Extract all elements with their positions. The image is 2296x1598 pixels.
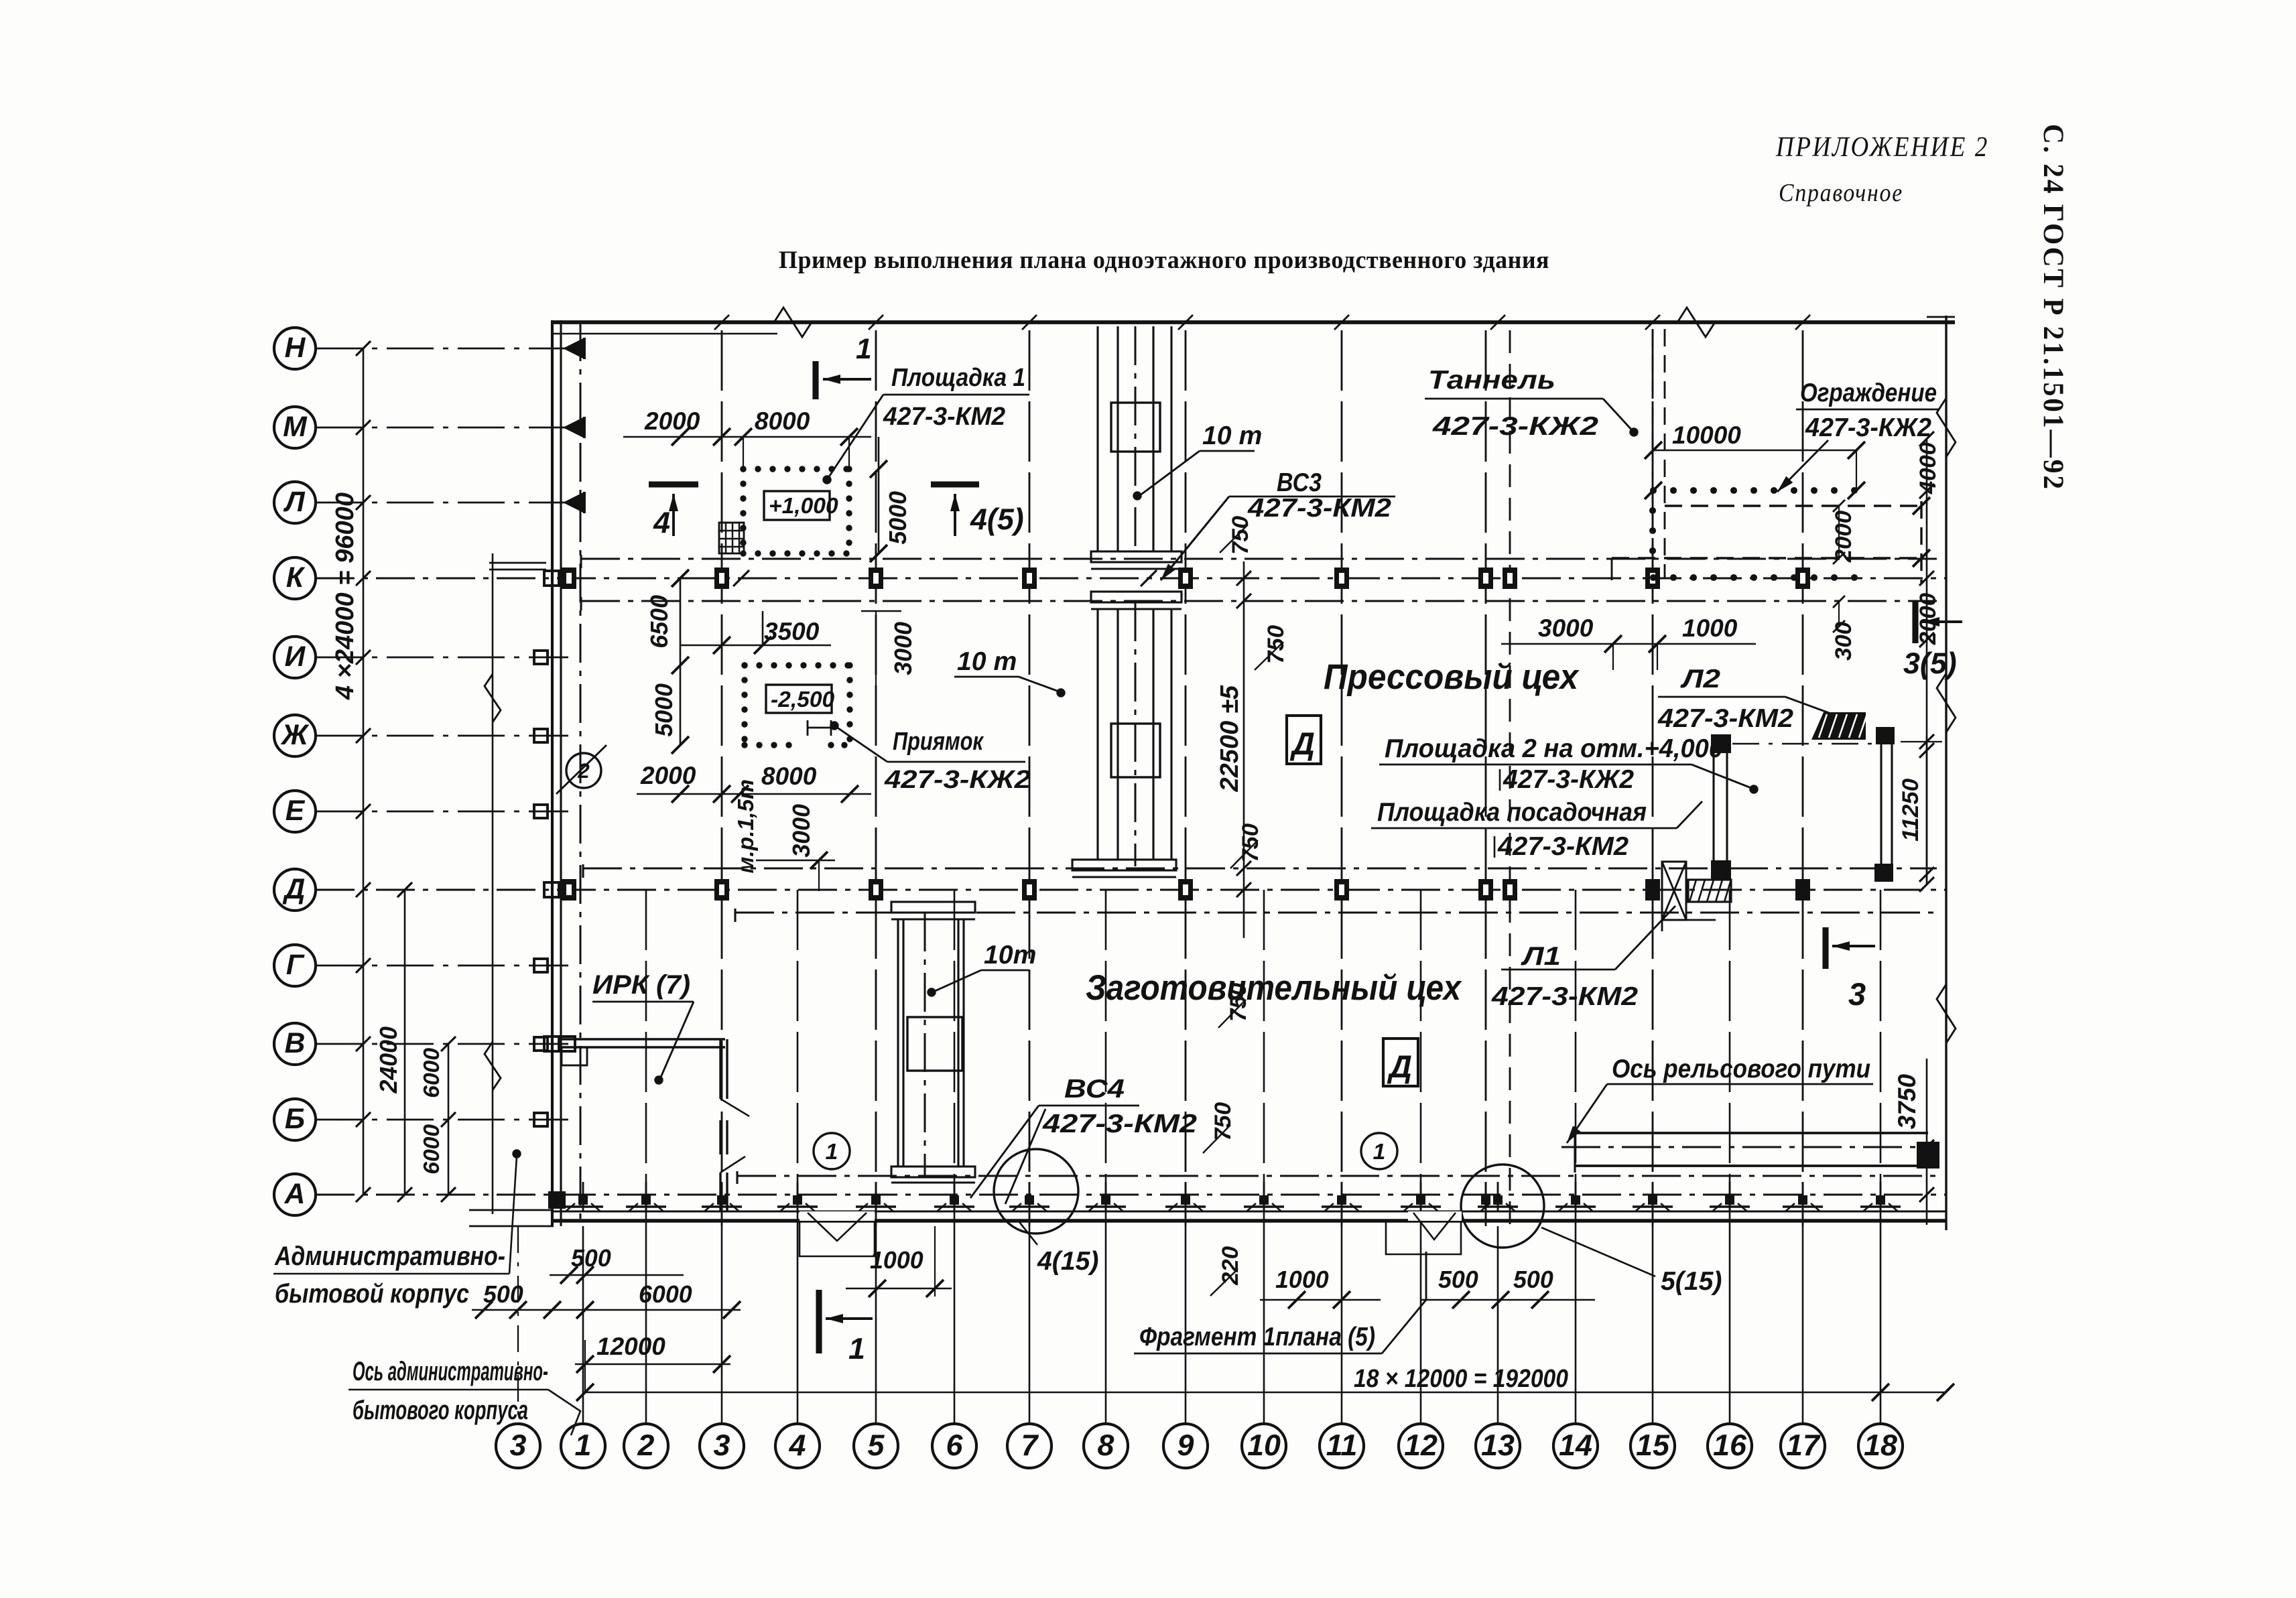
svg-text:6500: 6500 — [646, 595, 673, 649]
svg-text:427-3-КМ2: 427-3-КМ2 — [1247, 494, 1391, 523]
svg-text:Пример выполнения плана одноэт: Пример выполнения плана одноэтажного про… — [779, 247, 1549, 274]
svg-text:Справочное: Справочное — [1779, 179, 1903, 207]
svg-text:Е: Е — [285, 795, 306, 827]
svg-text:ИРК (7): ИРК (7) — [592, 970, 690, 1000]
svg-text:9: 9 — [1177, 1428, 1194, 1462]
svg-text:К: К — [286, 561, 306, 594]
svg-text:1: 1 — [856, 333, 872, 365]
svg-text:ВС3: ВС3 — [1277, 468, 1322, 497]
svg-text:1000: 1000 — [1682, 614, 1738, 642]
svg-text:3500: 3500 — [764, 618, 820, 645]
svg-text:4000: 4000 — [1915, 442, 1941, 494]
svg-text:10: 10 — [1247, 1428, 1281, 1462]
svg-text:А: А — [284, 1178, 306, 1210]
svg-text:12: 12 — [1404, 1428, 1438, 1462]
svg-text:427-3-КМ2: 427-3-КМ2 — [1497, 832, 1629, 861]
svg-text:8000: 8000 — [755, 407, 810, 435]
svg-text:427-3-КЖ2: 427-3-КЖ2 — [884, 766, 1031, 794]
svg-text:Приямок: Приямок — [893, 728, 984, 756]
svg-text:12000: 12000 — [596, 1333, 665, 1360]
svg-text:427-3-КМ2: 427-3-КМ2 — [1657, 704, 1793, 733]
svg-text:427-3-КМ2: 427-3-КМ2 — [1042, 1110, 1197, 1138]
svg-text:1: 1 — [826, 1140, 838, 1164]
svg-text:3: 3 — [714, 1428, 730, 1462]
svg-text:750: 750 — [1210, 1102, 1236, 1141]
svg-text:427-3-КЖ2: 427-3-КЖ2 — [1805, 413, 1931, 442]
svg-text:Площадка 2 на отм.+4,000: Площадка 2 на отм.+4,000 — [1385, 734, 1723, 763]
svg-text:10т: 10т — [984, 941, 1036, 970]
svg-text:4(5): 4(5) — [970, 503, 1024, 536]
svg-text:5000: 5000 — [885, 491, 911, 545]
svg-text:8000: 8000 — [761, 762, 817, 790]
svg-text:Г: Г — [286, 949, 305, 981]
svg-text:м.р.1,5т: м.р.1,5т — [734, 779, 759, 874]
svg-text:6000: 6000 — [639, 1281, 692, 1308]
svg-text:Площадка посадочная: Площадка посадочная — [1377, 798, 1647, 827]
svg-text:Административно-: Административно- — [274, 1241, 505, 1271]
svg-text:10 т: 10 т — [957, 647, 1017, 676]
svg-text:ПРИЛОЖЕНИЕ 2: ПРИЛОЖЕНИЕ 2 — [1775, 132, 1989, 163]
svg-text:Д: Д — [282, 873, 306, 905]
svg-text:3(5): 3(5) — [1903, 647, 1957, 680]
svg-text:Таннель: Таннель — [1428, 366, 1555, 395]
svg-text:3: 3 — [1848, 976, 1866, 1012]
svg-text:Площадка 1: Площадка 1 — [891, 364, 1025, 392]
svg-text:2: 2 — [637, 1428, 655, 1462]
svg-text:Заготовительный цех: Заготовительный цех — [1086, 968, 1462, 1008]
svg-text:Б: Б — [285, 1103, 305, 1135]
svg-text:24000: 24000 — [375, 1026, 402, 1094]
svg-text:3000: 3000 — [890, 622, 917, 675]
svg-text:22500 ±5: 22500 ±5 — [1216, 685, 1244, 792]
svg-text:ВС4: ВС4 — [1064, 1075, 1125, 1104]
svg-text:Д: Д — [1289, 726, 1315, 761]
svg-text:14: 14 — [1559, 1428, 1592, 1462]
svg-text:Ограждение: Ограждение — [1800, 379, 1937, 407]
svg-text:13: 13 — [1481, 1428, 1515, 1462]
svg-text:5000: 5000 — [651, 683, 678, 737]
svg-text:2000: 2000 — [644, 407, 700, 435]
svg-text:500: 500 — [1513, 1266, 1553, 1293]
svg-text:10000: 10000 — [1672, 421, 1741, 449]
svg-text:11: 11 — [1326, 1428, 1358, 1462]
svg-text:+1,000: +1,000 — [769, 494, 838, 519]
svg-text:3: 3 — [510, 1428, 527, 1462]
svg-text:3750: 3750 — [1893, 1074, 1921, 1130]
svg-text:300: 300 — [1831, 622, 1856, 661]
svg-text:18: 18 — [1864, 1428, 1897, 1462]
svg-text:4(15): 4(15) — [1037, 1247, 1098, 1276]
svg-text:Н: Н — [285, 332, 306, 364]
svg-text:Д: Д — [1387, 1049, 1412, 1084]
svg-text:В: В — [285, 1027, 306, 1059]
svg-text:1000: 1000 — [1275, 1266, 1329, 1293]
svg-text:бытовой корпус: бытовой корпус — [275, 1278, 469, 1309]
svg-text:1: 1 — [1373, 1140, 1386, 1164]
svg-text:6: 6 — [946, 1428, 964, 1462]
svg-text:1: 1 — [848, 1332, 865, 1366]
svg-text:Ось рельсового пути: Ось рельсового пути — [1612, 1055, 1870, 1083]
svg-text:Ж: Ж — [280, 719, 310, 751]
svg-text:Л1: Л1 — [1520, 942, 1561, 971]
svg-text:5(15): 5(15) — [1661, 1267, 1722, 1296]
svg-text:11250: 11250 — [1898, 779, 1923, 842]
svg-text:427-3-КМ2: 427-3-КМ2 — [883, 403, 1005, 431]
svg-text:3000: 3000 — [788, 804, 815, 858]
svg-text:бытового корпуса: бытового корпуса — [353, 1395, 528, 1425]
svg-text:17: 17 — [1786, 1428, 1821, 1462]
svg-text:10 т: 10 т — [1202, 421, 1262, 450]
svg-text:3000: 3000 — [1538, 614, 1594, 642]
svg-text:-2,500: -2,500 — [771, 687, 835, 712]
svg-text:427-3-КЖ2: 427-3-КЖ2 — [1432, 412, 1599, 441]
svg-text:5: 5 — [868, 1428, 885, 1462]
svg-text:7: 7 — [1021, 1428, 1039, 1462]
svg-text:220: 220 — [1218, 1246, 1243, 1286]
svg-text:Фрагмент 1плана (5): Фрагмент 1плана (5) — [1139, 1323, 1375, 1351]
svg-text:Ось административно-: Ось административно- — [353, 1356, 548, 1386]
svg-text:1000: 1000 — [870, 1247, 923, 1274]
svg-text:8: 8 — [1098, 1428, 1114, 1462]
svg-text:500: 500 — [1438, 1266, 1478, 1293]
svg-text:6000: 6000 — [420, 1048, 444, 1098]
svg-text:4: 4 — [789, 1428, 806, 1462]
svg-text:4 ×24000 = 96000: 4 ×24000 = 96000 — [331, 492, 359, 700]
svg-text:1: 1 — [575, 1428, 592, 1462]
svg-text:427-3-КМ2: 427-3-КМ2 — [1491, 982, 1638, 1011]
svg-text:М: М — [283, 411, 308, 443]
svg-text:И: И — [285, 641, 306, 673]
svg-text:С. 24 ГОСТ Р 21.1501—92: С. 24 ГОСТ Р 21.1501—92 — [2037, 124, 2069, 491]
svg-text:18 × 12000 = 192000: 18 × 12000 = 192000 — [1354, 1365, 1568, 1393]
svg-text:15: 15 — [1636, 1428, 1670, 1462]
svg-text:16: 16 — [1713, 1428, 1747, 1462]
svg-text:Прессовый цех: Прессовый цех — [1324, 657, 1580, 697]
svg-text:750: 750 — [1228, 516, 1253, 555]
svg-text:2000: 2000 — [1831, 511, 1856, 563]
svg-text:4: 4 — [653, 506, 670, 539]
svg-text:6000: 6000 — [420, 1124, 444, 1175]
svg-text:Л2: Л2 — [1679, 665, 1720, 693]
svg-text:Л: Л — [283, 486, 305, 518]
svg-text:427-3-КЖ2: 427-3-КЖ2 — [1503, 765, 1634, 794]
